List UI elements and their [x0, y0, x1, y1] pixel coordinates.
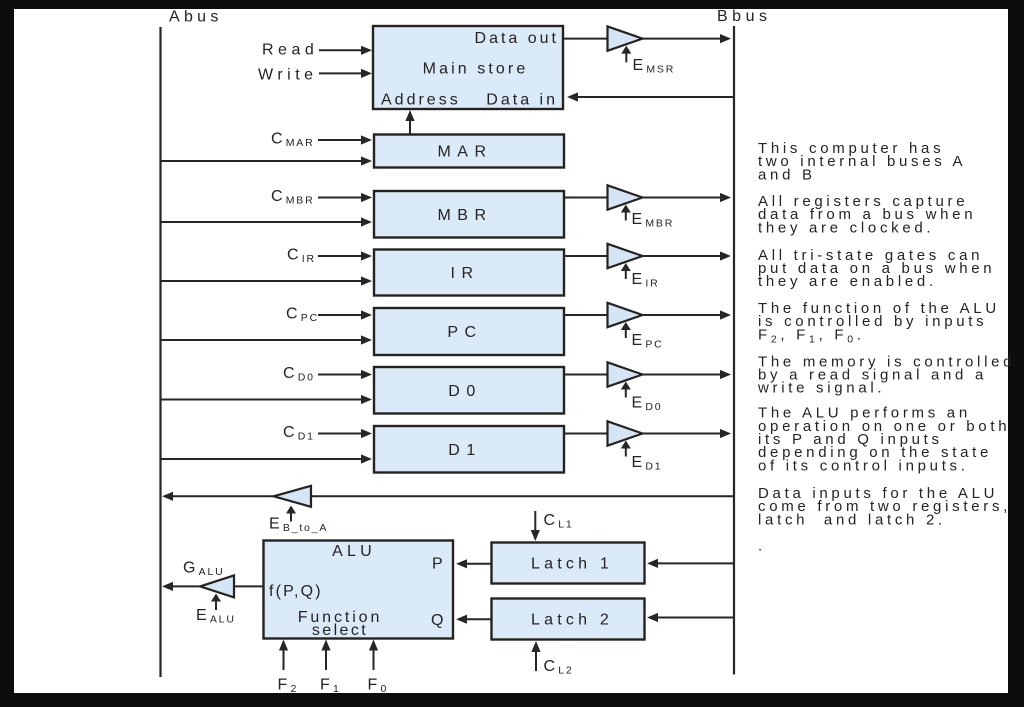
wire C_IR arrow: [318, 255, 363, 257]
wire Data in line from Bbus to main store: [576, 96, 734, 98]
wire F_1 arrow into ALU: [325, 649, 327, 671]
wire enable arrow into E_MSR: [625, 52, 627, 63]
wire C_D1 arrow: [318, 433, 363, 435]
wire F_0 arrow into ALU: [373, 649, 375, 671]
wire C_MBR arrow: [318, 197, 363, 199]
wire enable arrow into E_IR: [625, 269, 627, 279]
wire Abus branch into D0: [161, 399, 364, 401]
svg-text:f(P,Q): f(P,Q): [269, 583, 323, 600]
svg-text:D1: D1: [448, 442, 481, 459]
svg-text:MBR: MBR: [437, 207, 492, 224]
svg-text:Data out: Data out: [475, 30, 559, 47]
svg-text:they are enabled.: they are enabled.: [758, 273, 937, 290]
wire Abus branch into PC: [161, 339, 364, 341]
wire C_L1 clock arrow into Latch 1: [534, 511, 536, 532]
svg-text:D0: D0: [448, 383, 481, 400]
svg-text:of its control inputs.: of its control inputs.: [758, 457, 969, 474]
wire enable arrow into E_B_to_A: [290, 509, 292, 522]
wire enable arrow into E_D0: [625, 388, 627, 398]
svg-text:Latch 1: Latch 1: [531, 556, 613, 573]
register PC: [374, 308, 564, 355]
tri-state buffer E_IR: [564, 255, 608, 257]
latch register Latch 2: [492, 599, 645, 640]
register MBR: [374, 191, 564, 238]
wire C_D0 arrow: [318, 374, 363, 376]
svg-text:.: .: [758, 538, 766, 555]
ALU U2: [264, 541, 454, 639]
wire Bbus vertical bus line: [733, 26, 735, 675]
wire C_L2 clock arrow into Latch 2: [535, 650, 537, 671]
wire Abus branch into MAR: [161, 160, 364, 162]
wire C_MAR arrow: [318, 139, 363, 141]
svg-text:Write: Write: [258, 67, 318, 84]
svg-text:Q: Q: [431, 612, 447, 629]
wire C_PC arrow: [318, 314, 363, 316]
wire ALU output to G_ALU buffer: [234, 585, 264, 587]
tri-state buffer E_PC: [564, 314, 608, 316]
svg-text:Bbus: Bbus: [717, 8, 771, 25]
wire Abus branch into MBR: [161, 221, 364, 223]
wire B bus to A bus transfer line: [311, 495, 734, 497]
wire enable arrow into E_MBR: [625, 211, 627, 221]
latch register Latch 1: [492, 543, 645, 584]
tri-state buffer E_D1: [564, 433, 608, 435]
annotation text column: [757, 140, 1015, 554]
wire Bbus branch into Latch 1: [656, 562, 734, 564]
register IR: [374, 250, 564, 296]
svg-text:and B: and B: [758, 166, 816, 183]
svg-text:Latch 2: Latch 2: [531, 612, 613, 629]
svg-text:Data in: Data in: [486, 92, 558, 109]
svg-text:ALU: ALU: [332, 543, 376, 560]
svg-text:latch and latch 2.: latch and latch 2.: [758, 511, 946, 528]
wire Abus branch into IR: [161, 280, 364, 282]
register D0: [374, 367, 564, 414]
wire G_ALU output arrow to Abus: [171, 585, 200, 587]
svg-text:Main store: Main store: [423, 61, 529, 78]
wire enable arrow into E_D1: [625, 447, 627, 457]
tri-state buffer G_ALU output: [200, 575, 234, 597]
wire Write arrow into main store: [319, 72, 363, 74]
tri-state buffer E_B_to_A: [274, 486, 312, 507]
register MAR: [374, 135, 564, 168]
register D1: [374, 426, 564, 473]
tri-state buffer E_MBR: [564, 197, 608, 199]
wire Abus branch into D1: [161, 458, 364, 460]
svg-text:PC: PC: [447, 324, 482, 341]
svg-text:IR: IR: [451, 265, 480, 282]
svg-text:Abus: Abus: [169, 9, 223, 26]
svg-text:they are clocked.: they are clocked.: [758, 219, 934, 236]
tri-state buffer E_MSR: [563, 38, 608, 40]
wire F_2 arrow into ALU: [283, 649, 285, 671]
wire Latch 1 to ALU P input: [465, 563, 492, 565]
svg-text:write signal.: write signal.: [757, 380, 885, 397]
svg-text:select: select: [312, 622, 368, 639]
wire enable arrow into E_ALU buffer: [215, 599, 217, 610]
wire Bbus branch into Latch 2: [656, 617, 734, 619]
tri-state buffer E_D0: [564, 374, 608, 376]
main store U1 (memory box): [373, 26, 563, 109]
wire enable arrow into E_PC: [625, 328, 627, 338]
wire MAR to main store Address arrow: [409, 119, 411, 135]
svg-text:Read: Read: [262, 42, 318, 59]
wire Latch 2 to ALU Q input: [465, 618, 492, 620]
wire Abus vertical bus line: [159, 27, 161, 677]
svg-text:Address: Address: [381, 92, 461, 109]
svg-text:P: P: [432, 556, 446, 573]
wire Read arrow into main store: [319, 49, 363, 51]
svg-text:MAR: MAR: [437, 144, 492, 161]
